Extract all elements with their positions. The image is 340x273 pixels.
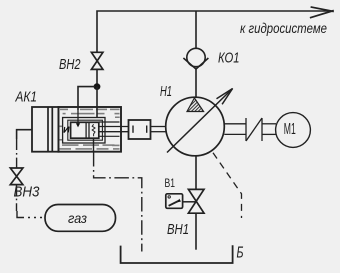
- shaft coupling to motor: [262, 123, 276, 125]
- svg-text:к гидросистеме: к гидросистеме: [240, 20, 327, 36]
- motor coupling diagonal: [246, 118, 262, 141]
- pump outlet triangle (hatched): [187, 98, 204, 112]
- wire: elbow junction to regulator box: [78, 87, 95, 110]
- svg-text:Н1: Н1: [160, 83, 172, 100]
- spool box divider 1: [85, 122, 87, 138]
- svg-text:В1: В1: [165, 176, 176, 190]
- piston line 1: [47, 107, 49, 152]
- svg-text:ВН3: ВН3: [14, 183, 41, 200]
- wire: pump top to check valve: [195, 69, 197, 97]
- drain line from spool box: [93, 138, 95, 152]
- svg-text:АК1: АК1: [15, 89, 37, 106]
- check valve KO1 seat V: [183, 58, 208, 69]
- svg-text:газ: газ: [68, 210, 87, 226]
- wire: BH2 to junction: [96, 69, 98, 86]
- motor coupling right bar: [261, 118, 263, 141]
- glyph И left of spool box: [64, 127, 69, 133]
- shaft lines block to coupling (inner pair): [99, 126, 129, 128]
- B1 lever knob: [178, 199, 181, 203]
- piston line 2: [51, 107, 53, 152]
- dash-dot wire to BH3: [16, 139, 18, 168]
- coupling tick left: [132, 126, 134, 133]
- pump casing block: [59, 107, 122, 152]
- svg-text:ВН2: ВН2: [59, 57, 81, 73]
- svg-text:Б: Б: [237, 245, 244, 262]
- variable displacement arrow: [167, 89, 233, 153]
- tank Б outline: [121, 245, 233, 263]
- wire: top pressure line to hydraulic system: [97, 11, 332, 52]
- wire: check valve to top line: [195, 11, 197, 48]
- corner to gas capsule: [17, 211, 22, 218]
- svg-text:М1: М1: [284, 121, 296, 138]
- wire: pump bottom to valve BH1: [195, 156, 197, 190]
- dotted wire to gas capsule: [22, 217, 45, 219]
- check valve KO1 ball circle: [187, 48, 205, 66]
- junction node: [94, 83, 101, 90]
- svg-text:ВН1: ВН1: [167, 221, 189, 238]
- inner casing rect B: [68, 120, 103, 140]
- spool box divider 2: [88, 122, 90, 138]
- dash-dot drain from regulator to tank: [94, 152, 142, 252]
- arrowhead: to hydraulic system: [310, 7, 334, 18]
- motor M1 circle: [276, 113, 311, 148]
- spring squiggle in right cell: [92, 124, 95, 136]
- switch B1 box: [166, 194, 183, 209]
- valve BH1 (bowtie): [188, 189, 204, 213]
- wire: BH1 to tank: [195, 213, 197, 250]
- regulator spool box: [71, 122, 99, 138]
- valve BH2 (bowtie): [91, 52, 103, 69]
- arrowhead into regulator box: [76, 123, 80, 127]
- shaft lines from spool box (outer pair): [99, 121, 120, 123]
- svg-text:КО1: КО1: [218, 50, 240, 67]
- coupling tick right: [146, 126, 148, 133]
- gas capsule: [45, 205, 116, 232]
- pump H1 circle: [166, 97, 225, 156]
- wire: AK1 port: [17, 130, 32, 139]
- valve BH3 (bowtie): [10, 168, 23, 185]
- wire: B1 to BH1: [183, 201, 197, 203]
- casing dashed fill texture: [60, 109, 120, 150]
- wire: junction down into block: [96, 87, 98, 118]
- dash-dot wire below BH3: [16, 185, 18, 211]
- shaft coupling to pump: [151, 126, 167, 128]
- motor coupling left bar: [245, 118, 247, 141]
- inner casing rect A: [63, 118, 105, 144]
- coupling box pump side: [129, 120, 151, 139]
- B1 lever: [169, 201, 180, 206]
- shaft pump to coupling: [224, 123, 246, 125]
- B1 pivot circle: [168, 196, 170, 198]
- dashed control line from pump: [213, 153, 242, 218]
- accumulator AK1 body: [32, 107, 59, 152]
